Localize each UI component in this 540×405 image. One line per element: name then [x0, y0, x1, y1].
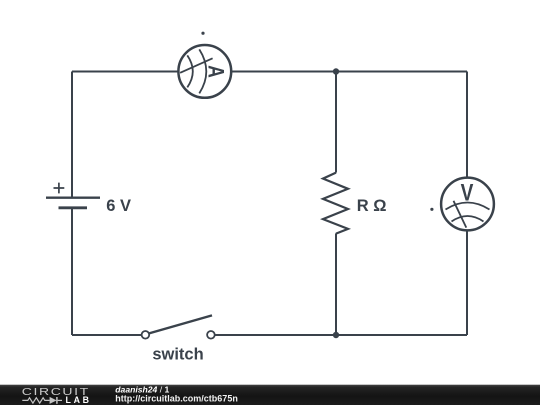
svg-text:R Ω: R Ω [357, 197, 387, 215]
svg-text:switch: switch [152, 346, 203, 364]
svg-text:6 V: 6 V [106, 197, 131, 215]
svg-text:V: V [461, 178, 474, 206]
svg-text:A: A [203, 65, 228, 78]
svg-text:LAB: LAB [66, 395, 92, 405]
svg-text:http://circuitlab.com/ctb675n: http://circuitlab.com/ctb675n [115, 393, 238, 403]
